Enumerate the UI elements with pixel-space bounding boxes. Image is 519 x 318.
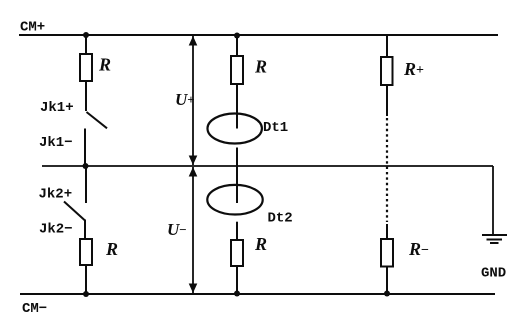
svg-text:CM+: CM+ [20, 20, 45, 36]
svg-text:Dt2: Dt2 [268, 211, 293, 227]
svg-text:Jk2+: Jk2+ [39, 187, 73, 203]
svg-text:U+: U+ [175, 90, 195, 109]
svg-text:R: R [105, 239, 118, 259]
svg-text:Jk1+: Jk1+ [40, 100, 74, 116]
svg-text:GND: GND [481, 266, 506, 282]
svg-text:U−: U− [167, 220, 187, 239]
svg-text:R: R [254, 57, 267, 77]
svg-text:R: R [254, 234, 267, 254]
svg-text:Jk1−: Jk1− [39, 135, 73, 151]
svg-text:Dt1: Dt1 [263, 120, 288, 136]
svg-text:CM−: CM− [22, 301, 47, 317]
svg-text:R: R [98, 55, 111, 75]
svg-text:Jk2−: Jk2− [39, 222, 73, 238]
